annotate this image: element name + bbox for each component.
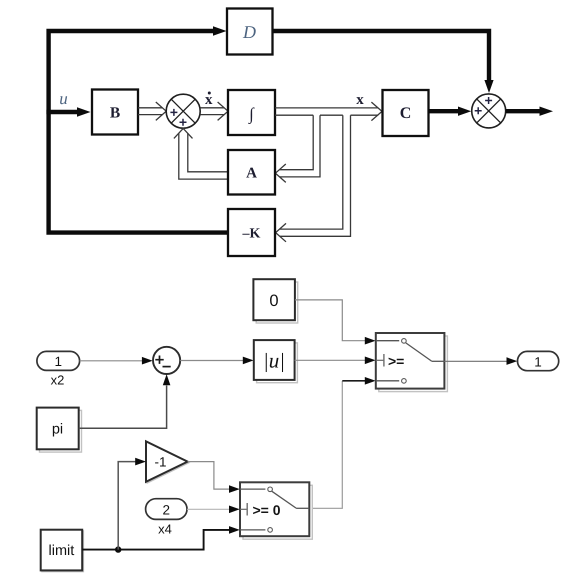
block constant 0 bbox=[253, 279, 297, 323]
wire gain -1 to switch SW2 port1 bbox=[188, 462, 230, 490]
block abs |u| bbox=[254, 340, 298, 383]
wire hollow branch from x line down into A bbox=[275, 115, 320, 182]
svg-text:x2: x2 bbox=[51, 373, 65, 388]
svg-text:x: x bbox=[356, 92, 364, 108]
svg-text:|u|: |u| bbox=[263, 349, 285, 373]
wire abs to switch SW1 port2 bbox=[295, 359, 366, 361]
svg-text:–K: –K bbox=[242, 227, 261, 242]
svg-text:A: A bbox=[246, 166, 257, 182]
outport oval 1 bbox=[518, 351, 559, 370]
wire switch SW2 output up to switch SW1 port3 bbox=[309, 381, 342, 508]
wire limit to switch SW2 port3 bbox=[82, 530, 230, 550]
block -K bbox=[228, 209, 275, 256]
block switch SW1 bbox=[376, 333, 448, 392]
svg-text:>=: >= bbox=[388, 353, 404, 369]
wire pi to sum S3 bottom bbox=[79, 386, 167, 429]
sum junction S3 bbox=[153, 347, 180, 374]
wire x4 to switch SW2 port2 bbox=[187, 508, 230, 510]
svg-text:C: C bbox=[400, 105, 412, 122]
sum junction S1 bbox=[166, 94, 200, 128]
svg-text:1: 1 bbox=[54, 354, 62, 369]
junction dot on limit wire bbox=[115, 546, 121, 552]
node xdot label bbox=[205, 92, 213, 108]
inport oval x2 bbox=[37, 351, 80, 387]
block A bbox=[228, 150, 275, 195]
svg-text:x4: x4 bbox=[158, 522, 172, 537]
block C bbox=[383, 90, 429, 136]
svg-text:limit: limit bbox=[49, 543, 75, 559]
wire hollow arrow integrator to C (x line) bbox=[275, 102, 382, 121]
inport oval x4 bbox=[146, 499, 187, 537]
svg-text:-1: -1 bbox=[154, 455, 166, 470]
svg-text:D: D bbox=[242, 22, 256, 42]
gain block -1 bbox=[146, 441, 189, 483]
block integrator bbox=[228, 90, 275, 135]
wire u branch into B bbox=[46, 110, 77, 114]
svg-text:B: B bbox=[110, 105, 120, 122]
wire thick C to sum S2 bbox=[429, 109, 459, 113]
wire hollow arrow A output up into sum S1 bbox=[174, 128, 228, 179]
wire x2 to sum S3 bbox=[80, 360, 143, 362]
sum junction S2 bbox=[472, 94, 506, 128]
block D bbox=[227, 9, 273, 55]
wire hollow arrow B to sum S1 bbox=[138, 102, 166, 120]
block limit bbox=[41, 530, 84, 572]
wire thick feedback path from -K to vertical bus up to D bbox=[49, 31, 228, 233]
svg-text:u: u bbox=[59, 89, 68, 108]
wire branch from limit junction up to gain -1 bbox=[118, 462, 136, 550]
wire thick output from sum S2 bbox=[506, 109, 540, 113]
svg-text:pi: pi bbox=[52, 422, 63, 438]
wire constant 0 to switch SW1 port1 bbox=[295, 300, 366, 341]
svg-text:2: 2 bbox=[163, 502, 171, 517]
block pi bbox=[37, 408, 82, 453]
svg-text:>= 0: >= 0 bbox=[253, 502, 281, 518]
wire thick arrowhead into D bbox=[213, 26, 227, 35]
svg-text:1: 1 bbox=[534, 354, 542, 369]
wire sum S3 to abs bbox=[180, 360, 243, 362]
block switch SW2 bbox=[240, 482, 312, 539]
wire hollow branch from x line down into -K bbox=[276, 115, 351, 242]
wire hollow arrow sum S1 to integrator bbox=[200, 102, 228, 120]
wire switch SW1 to outport bbox=[444, 360, 507, 362]
svg-text:0: 0 bbox=[269, 292, 278, 310]
block B bbox=[92, 90, 138, 135]
wire thick D output to sum S2 bbox=[273, 31, 490, 80]
